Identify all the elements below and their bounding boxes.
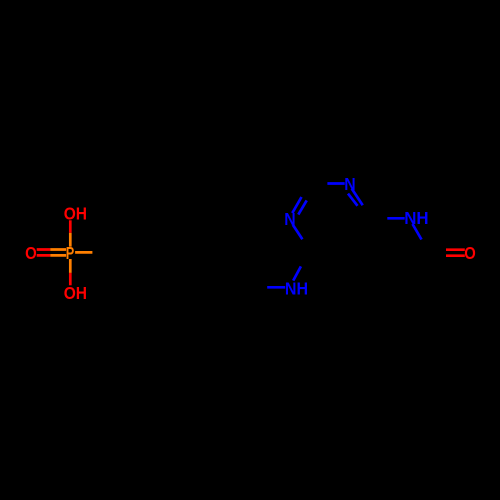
wire C-NH bond blue half (chain to ring amine) xyxy=(267,286,285,289)
svg-text:N: N xyxy=(344,174,355,194)
svg-text:N: N xyxy=(284,209,295,229)
wire C=O double bond red half xyxy=(446,250,465,256)
wire P-OH top bond orange half xyxy=(69,233,72,247)
wire NH-C6 bond blue half xyxy=(293,266,301,280)
svg-text:OH: OH xyxy=(64,283,87,303)
wire NH-C(=O) bond blue half xyxy=(413,224,422,240)
svg-text:NH: NH xyxy=(285,279,308,299)
wire P-OH top bond red half xyxy=(69,220,72,233)
wire P=O double bond red half xyxy=(37,250,51,256)
wire N1=C2 double bond main blue half xyxy=(292,197,301,213)
wire N3=C4 double bond inner blue half xyxy=(348,194,358,206)
wire N1=C2 double bond inner blue half xyxy=(298,200,306,214)
chemical structure: phosphonic acid + pyrimidine acetamide xyxy=(37,184,465,288)
wire P-C bond orange half xyxy=(75,251,92,254)
wire C4-NH bond blue half xyxy=(387,217,404,220)
svg-text:P: P xyxy=(66,243,75,263)
wire P-OH bottom bond red half xyxy=(69,273,72,285)
wire N3=C4 double bond main blue half xyxy=(352,189,363,206)
wire N1-C6 bond blue half xyxy=(293,225,303,239)
svg-text:O: O xyxy=(25,243,37,263)
wire C2-N3 bond blue half xyxy=(327,182,344,185)
svg-text:OH: OH xyxy=(64,204,87,224)
wire P=O double bond orange half xyxy=(50,250,66,256)
svg-text:O: O xyxy=(464,243,476,263)
wire P-OH bottom bond orange half xyxy=(69,259,72,273)
svg-text:NH: NH xyxy=(404,208,428,228)
